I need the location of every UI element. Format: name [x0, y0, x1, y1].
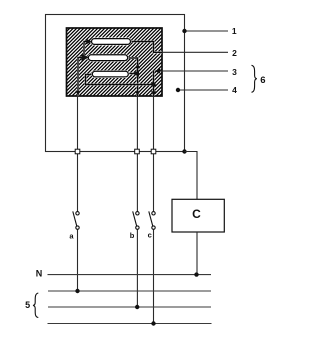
switch a	[73, 211, 79, 229]
svg-text:2: 2	[232, 48, 237, 58]
phase line 2	[48, 306, 211, 308]
arrow down wire c at block bottom	[151, 91, 156, 95]
junction dot wire c / bottom run	[151, 82, 155, 86]
neutral line N	[48, 274, 212, 276]
arrow junction bar2 left	[82, 54, 89, 61]
hatched block (heater body, item 4)	[67, 28, 163, 96]
switch b	[133, 211, 139, 229]
node dot wire a on phase 1	[75, 289, 79, 293]
lead line 4 with node dot	[178, 89, 228, 91]
brace for item 5	[33, 293, 38, 318]
wire enclosure to C box	[185, 152, 198, 200]
heating element bar 2	[88, 55, 127, 61]
arrow down wire b at block bottom	[135, 91, 140, 95]
lead line 3 with arrow	[157, 70, 228, 72]
brace for item 6	[252, 65, 257, 92]
node dot line 1 on enclosure	[182, 29, 186, 33]
component box C	[172, 199, 224, 232]
terminal square a	[75, 149, 80, 154]
svg-text:5: 5	[25, 300, 30, 310]
node dot wire c on phase 3	[151, 321, 155, 325]
node dot enclosure bottom-right corner	[182, 149, 186, 153]
svg-text:C: C	[192, 207, 201, 221]
wire bar1-left drop	[84, 42, 91, 58]
svg-text:3: 3	[232, 67, 237, 77]
arrow up on wire b top	[135, 64, 140, 69]
node dot wire b on phase 2	[135, 305, 139, 309]
node dot C on neutral	[194, 272, 198, 276]
svg-text:6: 6	[260, 75, 265, 86]
switch c	[149, 211, 155, 229]
terminal square c	[151, 149, 156, 154]
phase line 3	[48, 323, 212, 325]
heating element bar 3	[92, 71, 128, 77]
heating element bar 1	[92, 39, 131, 45]
wire bar3-left bottom run to wire c	[86, 75, 154, 85]
svg-text:1: 1	[232, 26, 237, 36]
arrow at bar3 right junction	[133, 70, 140, 77]
svg-text:c: c	[148, 231, 152, 240]
wire c vertical inside block	[152, 71, 154, 96]
wire bar1-right to line 2	[131, 42, 162, 53]
outer enclosure rectangle (item 1)	[46, 15, 185, 152]
wire bar2-right down (wire b inside block)	[128, 58, 138, 96]
wire C box to neutral	[196, 232, 198, 275]
phase line 1	[48, 290, 211, 292]
wire bar3-right join	[128, 72, 138, 74]
arrow down wire a at block bottom	[75, 91, 80, 96]
wire bar2-left to phase a	[78, 58, 88, 97]
terminal square b	[135, 149, 140, 154]
lead line 1	[185, 30, 229, 32]
wire a below block	[77, 96, 79, 212]
wire c below block	[153, 96, 155, 212]
arrow contact bar1 left	[87, 39, 92, 44]
svg-text:N: N	[36, 268, 43, 278]
svg-text:4: 4	[232, 85, 237, 95]
svg-text:b: b	[130, 231, 135, 240]
wire b below block	[136, 96, 138, 212]
lead line 2	[162, 51, 228, 53]
